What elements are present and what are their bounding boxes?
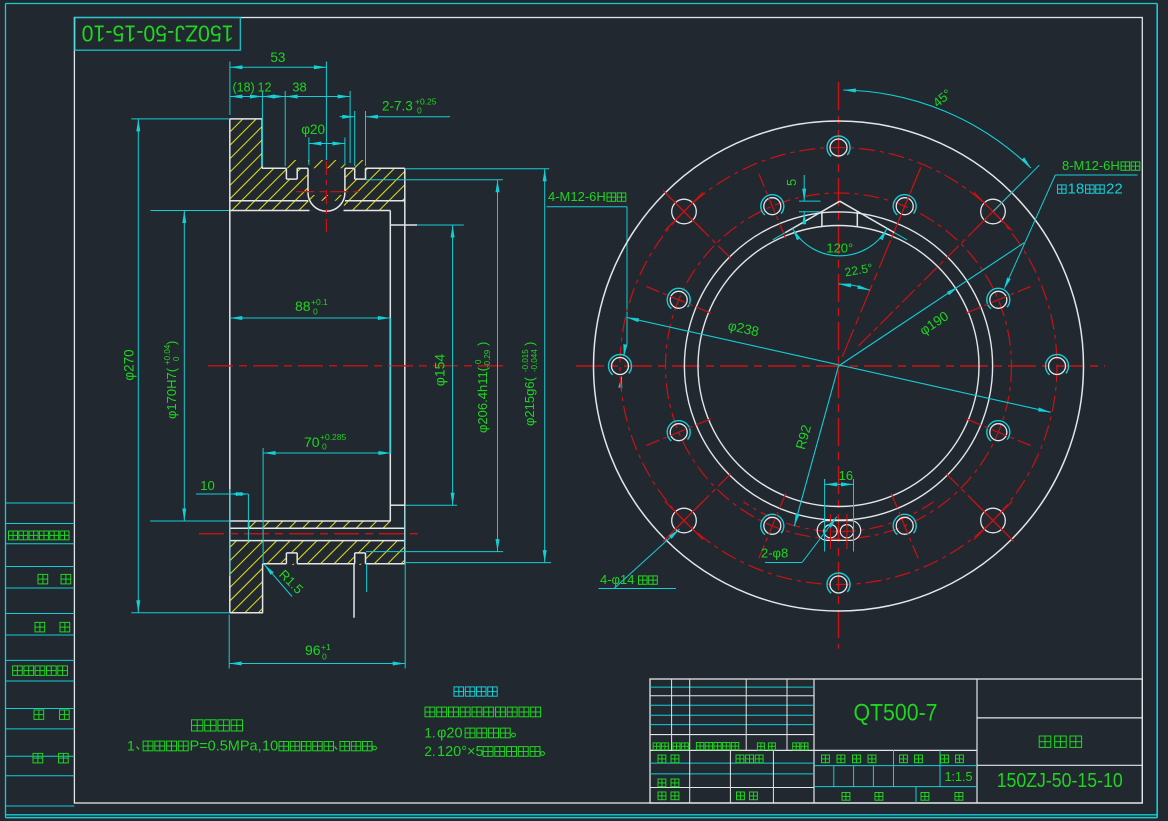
svg-text:10: 10 <box>200 478 214 493</box>
svg-text:5: 5 <box>784 179 799 186</box>
svg-text:φ215g6(: φ215g6( <box>522 376 537 426</box>
svg-text:0: 0 <box>417 106 422 116</box>
svg-text:): ) <box>522 342 537 346</box>
svg-text:18: 18 <box>1068 181 1085 198</box>
svg-text:φ270: φ270 <box>122 349 137 380</box>
svg-text:150ZJ-50-15-10: 150ZJ-50-15-10 <box>997 770 1123 792</box>
svg-text:0: 0 <box>313 307 318 317</box>
svg-text:φ20: φ20 <box>437 726 463 742</box>
svg-text:120°: 120° <box>826 241 853 256</box>
svg-text:12: 12 <box>258 81 272 95</box>
svg-text:22: 22 <box>1106 181 1123 198</box>
svg-text:φ154: φ154 <box>432 354 448 387</box>
svg-text:88: 88 <box>295 298 311 314</box>
svg-text:φ206.4h11(: φ206.4h11( <box>475 366 490 433</box>
svg-text:-0.29: -0.29 <box>483 349 492 368</box>
svg-text:1:1.5: 1:1.5 <box>945 770 973 784</box>
svg-text:-0.015: -0.015 <box>521 349 530 372</box>
svg-text:-0.044: -0.044 <box>530 349 539 372</box>
svg-text:): ) <box>164 341 179 345</box>
svg-text:(18): (18) <box>232 81 254 95</box>
svg-text:+0.1: +0.1 <box>311 297 328 307</box>
svg-text:4-M12-6H: 4-M12-6H <box>548 189 606 204</box>
svg-text:0: 0 <box>172 356 181 361</box>
svg-text:10: 10 <box>262 739 278 755</box>
svg-text:QT500-7: QT500-7 <box>854 700 938 727</box>
svg-text:8-M12-6H: 8-M12-6H <box>1062 158 1120 173</box>
svg-text:2-φ8: 2-φ8 <box>761 546 788 561</box>
svg-text:1: 1 <box>127 738 135 754</box>
svg-text:P=0.5MPa,: P=0.5MPa, <box>190 739 262 755</box>
svg-text:16: 16 <box>839 468 853 483</box>
svg-text:0: 0 <box>474 359 483 364</box>
svg-text:): ) <box>475 342 490 346</box>
svg-text:2.: 2. <box>424 744 435 759</box>
svg-text:120°×5: 120°×5 <box>437 744 484 760</box>
svg-text:53: 53 <box>270 50 285 65</box>
svg-text:0: 0 <box>322 652 327 662</box>
svg-text:+0.285: +0.285 <box>320 432 347 442</box>
svg-text:38: 38 <box>292 80 306 95</box>
svg-text:2-7.3: 2-7.3 <box>382 99 413 114</box>
svg-text:+1: +1 <box>321 642 331 652</box>
svg-text:+0.04: +0.04 <box>163 344 172 365</box>
svg-text:150ZJ-50-15-10: 150ZJ-50-15-10 <box>82 21 234 47</box>
svg-text:1.: 1. <box>424 726 435 741</box>
svg-text:φ20: φ20 <box>301 122 325 137</box>
svg-text:96: 96 <box>305 642 321 658</box>
svg-text:0: 0 <box>322 442 327 452</box>
svg-text:70: 70 <box>304 434 320 450</box>
svg-text:φ170H7(: φ170H7( <box>164 367 179 419</box>
